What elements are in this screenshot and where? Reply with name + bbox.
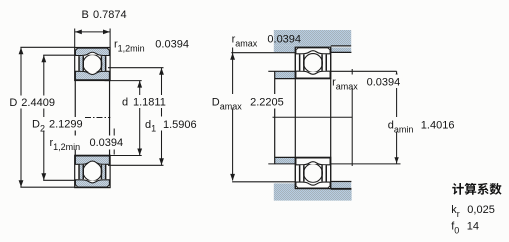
- housing shoulder bottom-left: [274, 183, 296, 190]
- bearing bottom cross-section (right view): [304, 164, 323, 183]
- dimension D extension lines: [20, 46, 74, 48]
- housing top bar: [274, 30, 351, 45]
- d_amin arrows: [394, 72, 398, 78]
- bearing side silhouette left edge: [74, 81, 76, 156]
- dimension d line: [139, 81, 141, 156]
- label r_12min 0.0394 bottom: [48, 136, 125, 150]
- housing bore line top-right: [331, 45, 352, 47]
- shaft abutment face: [274, 71, 276, 164]
- dimension D2 arrows: [41, 55, 46, 62]
- d_amin extension line bottom: [268, 163, 295, 165]
- centerline axis (left view): [85, 117, 110, 119]
- dimension B extension lines: [74, 29, 76, 48]
- dimension B line: [75, 31, 110, 33]
- dimension d arrows: [137, 81, 142, 88]
- housing bore line bottom-right: [331, 188, 352, 190]
- housing shoulder line bottom (D_amax extension): [232, 181, 295, 183]
- housing shoulder line top (r_amax extension): [231, 52, 295, 54]
- svg-text:f014: f014: [451, 221, 479, 236]
- svg-text:r1,2min0.0394: r1,2min0.0394: [114, 39, 189, 54]
- svg-text:kr0,025: kr0,025: [451, 204, 495, 219]
- heading calculation factors (CJK): [452, 183, 464, 195]
- dimension d1 arrows: [159, 68, 164, 75]
- bearing side silhouette right edge: [109, 81, 111, 156]
- svg-text:D2.4409: D2.4409: [9, 97, 55, 109]
- d_amin extension line top: [268, 70, 295, 72]
- bearing top cross-section (left view): [83, 55, 102, 74]
- bearing bottom cross-section (left view): [83, 162, 102, 181]
- dimension B arrows: [75, 30, 82, 35]
- housing tab top-right: [331, 47, 351, 52]
- r_amax arrow: [230, 53, 235, 60]
- housing shoulder top-left: [274, 45, 296, 52]
- bearing bore edge left (right view): [294, 47, 296, 188]
- r_amax / D_amax dimension line: [232, 48, 234, 181]
- dimension d extension lines: [105, 80, 142, 82]
- dimension D2 extension lines: [43, 54, 74, 56]
- label D_amax 2.2205: [210, 94, 286, 109]
- bearing bore edge right (right view): [330, 47, 332, 188]
- dimension d1 line: [161, 68, 163, 166]
- bearing top cross-section (right view): [304, 54, 323, 73]
- dimension d1 extension lines: [108, 67, 164, 69]
- centerline axis (right view): [273, 116, 353, 118]
- label r_amax 0.0394 right: [332, 75, 403, 89]
- label D2 2.1299: [30, 117, 85, 131]
- dimension D line: [20, 47, 22, 187]
- D_amax arrow bottom: [230, 174, 235, 181]
- label d1 1.5906: [143, 117, 200, 131]
- leader r12 bottom: [113, 129, 115, 155]
- svg-text:B0.7874: B0.7874: [82, 9, 127, 21]
- housing bore patch below bearing: [295, 189, 330, 190]
- housing tab bottom-right: [331, 182, 351, 188]
- d_amin dimension line: [396, 71, 398, 163]
- r_amax leader right: [351, 69, 353, 166]
- label d 1.1811: [120, 95, 169, 108]
- shaft shoulder bar top: [275, 72, 296, 79]
- label D 2.4409: [7, 96, 57, 109]
- label d_amin 1.4016: [386, 117, 458, 132]
- housing bottom bar: [274, 189, 352, 200]
- shaft shoulder bar bottom: [275, 158, 296, 164]
- dimension D arrows: [19, 48, 24, 55]
- dimension D2 line: [43, 55, 45, 180]
- housing bore patch above bearing: [295, 45, 330, 47]
